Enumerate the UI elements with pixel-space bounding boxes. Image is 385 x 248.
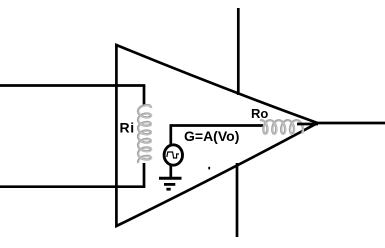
controlled source G (circle) [164,145,182,165]
sine symbol inside source [167,152,179,158]
wire: Ri bottom lead [143,163,146,187]
input wire (bottom) [0,185,145,188]
wire: Ri top lead [143,86,146,107]
resistor Ro (gray coil) [261,120,303,134]
ground bar 1 [159,177,182,180]
positive supply wire (top) [237,8,240,95]
wire: source bottom lead [169,165,172,178]
svg-text:G=A(Vo): G=A(Vo) [184,128,239,144]
input wire (top) [0,84,145,87]
resistor Ri (gray coil) [138,105,152,162]
op-amp U1 triangle body [116,45,317,226]
negative supply wire (bottom) [236,163,239,237]
ground bar 2 [164,183,175,186]
wire: Ro to op-amp apex [297,123,318,126]
output wire [317,122,385,125]
wire: source top lead [169,126,172,146]
wire: source to Ro [170,124,264,127]
svg-text:Ro: Ro [251,106,268,121]
node dot [208,167,210,170]
svg-text:Ri: Ri [120,120,135,136]
ground bar 3 [166,188,170,191]
